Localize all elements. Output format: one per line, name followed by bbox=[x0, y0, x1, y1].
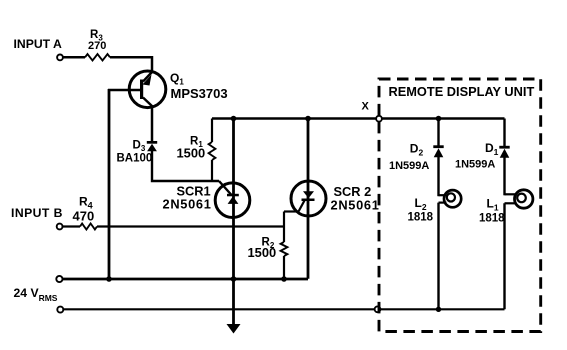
wire D2 to lamp L2 bbox=[437, 156, 439, 196]
junction base rail bbox=[106, 276, 112, 282]
wire R3 to Q1 emitter corner bbox=[110, 57, 152, 71]
svg-text:1N599A: 1N599A bbox=[455, 159, 495, 171]
label MPS3703 bbox=[171, 86, 228, 101]
label SCR1 bbox=[177, 183, 211, 198]
resistor R3 bbox=[85, 54, 110, 60]
transistor Q1 bbox=[129, 71, 166, 108]
label 2N5061 SCR1 bbox=[163, 196, 212, 211]
svg-text:1818: 1818 bbox=[408, 211, 434, 223]
resistor R1 bbox=[209, 119, 216, 182]
svg-text:BA100: BA100 bbox=[117, 152, 153, 164]
svg-text:X: X bbox=[362, 101, 370, 113]
ground bbox=[227, 324, 241, 334]
svg-text:270: 270 bbox=[88, 40, 106, 52]
wire D2 branch upper bbox=[437, 119, 439, 146]
wire D3 to gate node corner bbox=[152, 151, 219, 181]
label 24 VRMS bbox=[14, 286, 58, 303]
label INPUT B bbox=[11, 206, 63, 220]
label 1500 R2 bbox=[248, 245, 277, 260]
resistor R2 bbox=[281, 212, 288, 280]
terminal INPUT B bbox=[57, 224, 63, 230]
label D3 bbox=[133, 139, 146, 153]
svg-text:1500: 1500 bbox=[248, 245, 277, 260]
wire Q1 base bbox=[108, 89, 141, 91]
resistor R4 bbox=[80, 224, 97, 230]
wire common rail bbox=[63, 278, 308, 281]
label 1818 L1 bbox=[479, 212, 505, 224]
wire D1 to lamp L1 bbox=[503, 157, 505, 196]
label 1N599A D1 bbox=[455, 159, 495, 171]
label D2 bbox=[410, 142, 424, 158]
wire SCR1 vertical bbox=[232, 119, 235, 325]
junction R2 bottom rail bbox=[281, 276, 287, 282]
SCR1 bbox=[215, 183, 250, 218]
svg-text:1500: 1500 bbox=[177, 146, 206, 161]
node X bbox=[376, 116, 382, 122]
label D1 bbox=[485, 141, 499, 157]
terminal 24V upper bbox=[56, 276, 62, 282]
wire top rail bbox=[212, 117, 505, 119]
wire INPUT A to R3 bbox=[63, 56, 85, 59]
label R4 bbox=[79, 195, 93, 211]
junction D2 branch on top rail bbox=[436, 116, 442, 122]
label Q1 bbox=[170, 71, 184, 87]
wire SCR2 vertical bbox=[307, 119, 310, 279]
junction D2 branch bottom rail bbox=[436, 307, 441, 312]
junction SCR1 anode on top rail bbox=[231, 116, 237, 122]
label REMOTE DISPLAY UNIT bbox=[389, 84, 535, 99]
label R2 bbox=[262, 236, 275, 250]
diode D2 bbox=[433, 145, 443, 157]
wire SCR2 gate to R2 top bbox=[284, 210, 299, 212]
svg-text:470: 470 bbox=[73, 209, 95, 224]
svg-text:INPUT B: INPUT B bbox=[11, 206, 63, 220]
wire 24V bottom rail bbox=[63, 308, 504, 310]
label L1 bbox=[487, 197, 499, 213]
svg-text:MPS3703: MPS3703 bbox=[171, 86, 228, 101]
terminal INPUT A bbox=[57, 55, 63, 61]
svg-text:INPUT A: INPUT A bbox=[14, 37, 62, 51]
wire SCR1 gate diagonal bbox=[219, 181, 232, 195]
label R1 bbox=[190, 135, 203, 149]
wire Q1 collector down bbox=[151, 106, 154, 142]
label 1500 R1 bbox=[177, 146, 206, 161]
label BA100 bbox=[117, 152, 153, 164]
label SCR 2 bbox=[334, 184, 372, 199]
SCR2 bbox=[291, 181, 326, 216]
wire Q1 base vertical down to common rail bbox=[108, 89, 111, 279]
label 1N599A D2 bbox=[389, 160, 429, 172]
svg-text:2N5061: 2N5061 bbox=[331, 198, 380, 213]
label L2 bbox=[415, 196, 427, 212]
svg-text:REMOTE DISPLAY UNIT: REMOTE DISPLAY UNIT bbox=[389, 84, 535, 99]
lamp L2 bbox=[439, 190, 462, 207]
junction SCR2 anode on top rail bbox=[305, 116, 311, 122]
wire INPUT B to R4 bbox=[63, 225, 80, 227]
terminal 24V lower bbox=[57, 307, 63, 313]
diode D1 bbox=[499, 146, 509, 158]
junction SCR1 cathode rail bbox=[231, 276, 237, 282]
wire L1 to bottom rail bbox=[503, 203, 505, 309]
label X bbox=[362, 101, 370, 113]
label R3 bbox=[90, 29, 103, 43]
label 1818 L2 bbox=[408, 211, 434, 223]
label 270 bbox=[88, 40, 106, 52]
wire INPUT B line to R2 bbox=[97, 225, 284, 227]
diode D3 bbox=[147, 141, 157, 151]
node bottom rail boundary bbox=[375, 306, 381, 312]
wire D1 branch upper bbox=[503, 119, 505, 147]
svg-text:1N599A: 1N599A bbox=[389, 160, 429, 172]
remote display unit dashed box bbox=[379, 79, 541, 332]
wire SCR2 gate diagonal bbox=[299, 201, 305, 212]
label INPUT A bbox=[14, 37, 62, 51]
wire L2 to bottom rail bbox=[437, 203, 439, 310]
svg-text:2N5061: 2N5061 bbox=[163, 196, 212, 211]
lamp L1 bbox=[505, 190, 533, 208]
label 470 bbox=[73, 209, 95, 224]
svg-text:1818: 1818 bbox=[479, 212, 505, 224]
label 2N5061 SCR2 bbox=[331, 198, 380, 213]
